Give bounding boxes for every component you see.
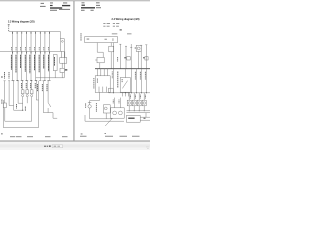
- lower wire w1: [4, 81, 6, 103]
- svg-text:2.3 Wiring diagram (2/3): 2.3 Wiring diagram (2/3): [8, 19, 35, 23]
- drop wire 1: [12, 32, 14, 81]
- relay K2 pins: [121, 92, 123, 96]
- top supply bus wire: [9, 31, 61, 33]
- ladder wire d: [5, 120, 32, 122]
- wire right of starter: [112, 69, 114, 93]
- label mid v1: [41, 84, 43, 92]
- key switch wire down: [105, 113, 107, 119]
- switch box S1: [3, 103, 6, 108]
- junction dots crosslink: [113, 92, 147, 93]
- relay K1 box: [60, 58, 67, 64]
- bottom wire 2: [85, 120, 124, 122]
- label col c8: [34, 83, 36, 89]
- starter motor M1 box: [95, 76, 110, 93]
- bottom long wire: [3, 100, 38, 128]
- plug R4: [142, 100, 146, 106]
- rotated labels below bus: [94, 72, 145, 89]
- header col A text: [41, 2, 44, 5]
- pressure switch S2: [48, 103, 51, 107]
- connector X1: [97, 57, 104, 62]
- drop wire 7: [39, 32, 41, 81]
- label col c6: [25, 83, 27, 89]
- main earth bus (thick): [95, 68, 150, 70]
- plug R2: [132, 100, 136, 106]
- tall box lead down: [54, 71, 56, 78]
- plug wire labels: [112, 71, 145, 103]
- line A junction nubs: [12, 52, 14, 54]
- horizontal wire B: [36, 77, 65, 79]
- label lamp return: [24, 107, 26, 112]
- lower wire w4: [18, 81, 23, 103]
- drop wire 5: [30, 32, 32, 81]
- solenoid coil a: [113, 111, 117, 115]
- box B1: [60, 68, 64, 72]
- ladder left drop: [4, 108, 6, 122]
- lower wire w5 + lamp: [22, 81, 24, 90]
- horizontal wire A: [0, 50, 64, 52]
- lamp L1 lead: [22, 97, 24, 111]
- page divider between left and right page: [73, 1, 74, 141]
- B1 lead down: [61, 73, 63, 78]
- label col c5: [21, 83, 23, 89]
- wire w-g to bus: [145, 45, 147, 69]
- header dark bar right page: [81, 7, 95, 8]
- s2 lower lead: [47, 108, 49, 113]
- fuse indicator circle: [62, 41, 64, 43]
- wire bus to K2: [124, 69, 126, 78]
- tick w-f: [140, 44, 142, 46]
- terminal mark: [1, 76, 3, 79]
- lamp L3: [31, 95, 33, 97]
- lamp L2 lead: [26, 97, 28, 104]
- riser terminal tick: [8, 24, 10, 26]
- header light text under bar: [50, 9, 57, 12]
- wire to box B1: [61, 63, 63, 68]
- starter inner windings: [98, 87, 100, 93]
- connector ticks left of big box: [80, 34, 81, 41]
- lamp L3 lead: [31, 97, 33, 122]
- lamp L2: [26, 95, 28, 97]
- component tick labels mid right: [124, 48, 144, 59]
- wire w-e to bus: [130, 44, 132, 69]
- label riser 2: [8, 72, 10, 79]
- crosslink wire: [109, 92, 151, 94]
- wires to page edge: [140, 116, 150, 118]
- battery lower lead: [89, 108, 91, 119]
- footer left page: [10, 135, 68, 138]
- junction box small: [109, 88, 114, 93]
- drop wire 8: [44, 32, 46, 81]
- controller side mark: [144, 117, 146, 120]
- plug R3: [137, 100, 141, 106]
- tick on w-e: [130, 47, 132, 49]
- header dark bar 'Electrical system': [50, 7, 62, 8]
- nav glyph 3: [49, 145, 51, 147]
- lamp H1: [127, 57, 130, 60]
- mid cluster wire 2: [47, 81, 49, 103]
- control unit box U1: [85, 37, 118, 43]
- drop wire 6: [35, 32, 37, 81]
- left stub: [84, 115, 86, 121]
- fuse box right: [60, 39, 64, 52]
- temp sender B2: [136, 45, 141, 51]
- label mid v2: [46, 84, 48, 92]
- drop wire 9: [49, 32, 51, 81]
- relay K2 box: [120, 78, 130, 93]
- legend bold mark: [120, 29, 122, 30]
- fuse F1 box: [109, 46, 114, 52]
- resistor block tall box: [53, 55, 57, 71]
- label mid v0: [36, 84, 38, 92]
- glow rail double bus: [126, 110, 150, 112]
- wire U1-b to bus: [113, 43, 115, 69]
- dotted rotated label near relay: [117, 72, 119, 88]
- right edge wire: [63, 51, 65, 77]
- wire X1 to bus: [99, 63, 101, 69]
- lower wire w3: [14, 81, 23, 110]
- solenoid coil b: [119, 111, 123, 115]
- page field: [52, 145, 62, 148]
- tick on w-g: [145, 44, 147, 46]
- page background: [0, 0, 150, 150]
- drop wire 3: [21, 32, 23, 81]
- lower wire w6 + lamp: [26, 81, 28, 90]
- label sw1: [1, 100, 3, 105]
- glow plug row: plug R1: [127, 100, 131, 106]
- label riser 1: [3, 72, 5, 79]
- glow plug feeds: [128, 93, 130, 100]
- mid cluster wire 1: [42, 81, 44, 113]
- relay pins: [60, 51, 62, 57]
- legend note rows: [103, 23, 131, 34]
- top scan edge: [0, 0, 150, 1]
- connector block L3: [30, 90, 33, 94]
- solenoid box Y1: [111, 108, 125, 118]
- junction dot: [22, 110, 23, 111]
- nav glyph 1: [44, 146, 46, 147]
- labels bottom right page: [95, 103, 97, 112]
- mid cluster ticks: [42, 80, 44, 82]
- sender circle inside B2: [137, 47, 140, 50]
- header col C dash: [63, 2, 67, 5]
- diagonal harness wire: [105, 118, 112, 126]
- svg-text:2.4 Wiring diagram (3/3): 2.4 Wiring diagram (3/3): [112, 17, 140, 21]
- drop wire 4: [25, 32, 27, 81]
- far right wires: [135, 69, 137, 93]
- rotated wire labels tier2: [11, 55, 54, 74]
- header col B dash: [50, 2, 53, 5]
- column end connector ticks: [12, 79, 51, 81]
- right branch riser: [59, 32, 61, 52]
- wire number labels above line A: [11, 47, 48, 51]
- wire w8 jog: [36, 99, 38, 101]
- relay K2 contact diagonal: [122, 81, 127, 89]
- label lower mid: [16, 104, 18, 109]
- page field text: [54, 146, 57, 147]
- battery G1: [88, 105, 91, 108]
- connector block L2: [26, 90, 29, 94]
- sender box: [145, 57, 148, 60]
- label col c7: [30, 83, 32, 89]
- right drop to bottom: [38, 90, 40, 128]
- connector block L1: [21, 90, 24, 94]
- punch mark: [1, 133, 2, 134]
- coil circles small: [104, 102, 145, 110]
- plug leads: [128, 106, 130, 111]
- tick w-c: [119, 43, 121, 45]
- wire w-d to bus: [125, 46, 127, 69]
- rail stub right: [145, 113, 147, 118]
- solenoid feed wires: [114, 98, 116, 108]
- wire F1 to bus: [110, 52, 112, 69]
- lower wire w7 + lamp: [31, 81, 33, 90]
- lower wire w8: [35, 81, 37, 100]
- tick w-d: [125, 45, 127, 47]
- tier-3 bottom left cluster: [2, 72, 47, 111]
- jog wire: [43, 113, 57, 119]
- wire from U1 pin: [97, 43, 103, 58]
- rail junction dots: [129, 110, 145, 111]
- lower wire w2: [9, 81, 14, 106]
- drop wire 2: [16, 32, 18, 81]
- bus junction nubs: [12, 32, 14, 34]
- control unit inner marks: [87, 38, 114, 41]
- wire w-c to bus: [119, 44, 121, 69]
- wire U1 to fuse F1: [110, 43, 112, 47]
- wire w-f to bus: [140, 45, 142, 69]
- nav glyph 2: [47, 146, 48, 147]
- corner grip: [146, 146, 149, 149]
- lower connector ticks: [4, 80, 6, 82]
- starter pins: [96, 69, 98, 76]
- wire B2 to bus: [138, 51, 140, 68]
- controller box: [126, 115, 140, 122]
- lamp L1: [22, 95, 24, 97]
- t2 col7 extension: [38, 81, 40, 90]
- footer right page: [80, 135, 140, 138]
- key switch box: [103, 105, 110, 113]
- battery plus mark: [88, 102, 91, 104]
- header dashes: [82, 1, 85, 4]
- header bold small: [50, 5, 53, 6]
- battery feed dashed riser: [8, 25, 10, 32]
- wire starter to battery: [90, 92, 100, 104]
- bottom wire 1: [90, 118, 113, 120]
- connector pigtail: [95, 59, 97, 61]
